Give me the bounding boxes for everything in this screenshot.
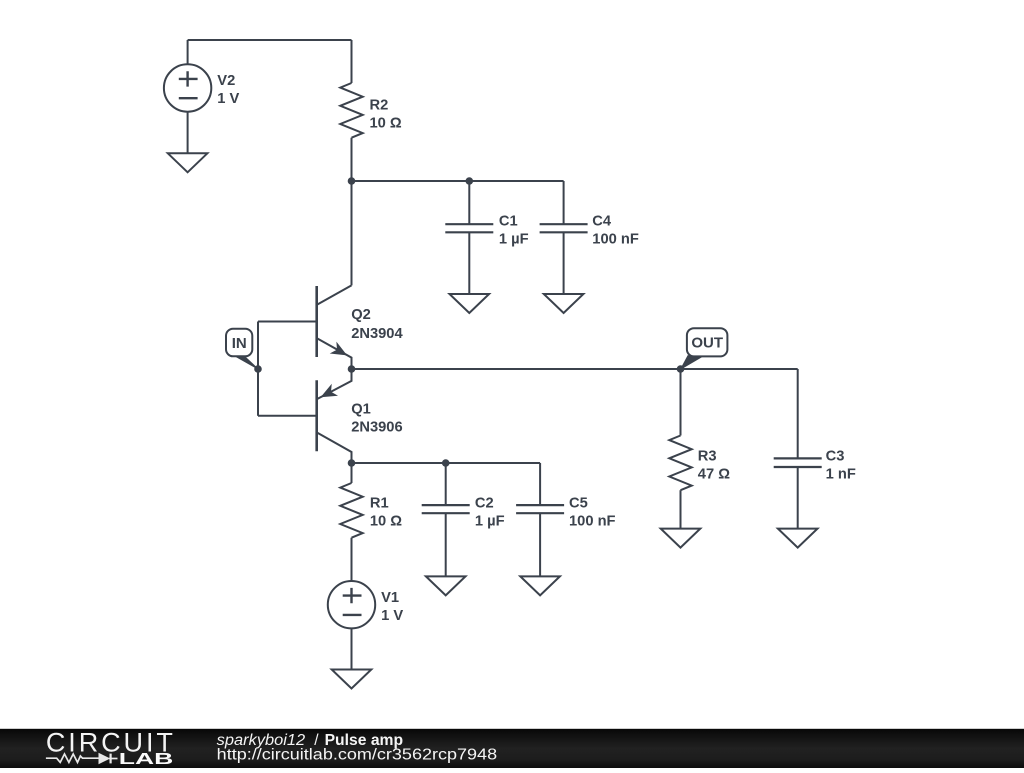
junction node at R2 bottom bbox=[348, 177, 356, 185]
wire V2 top to R2 top bbox=[188, 39, 352, 41]
svg-text:IN: IN bbox=[232, 335, 247, 352]
ground below C5 bbox=[520, 576, 560, 595]
junction node emitters bbox=[348, 365, 356, 373]
svg-text:C5: C5 bbox=[569, 495, 588, 511]
label R2 10ohm bbox=[370, 97, 402, 131]
svg-text:1 nF: 1 nF bbox=[826, 467, 856, 483]
svg-text:100 nF: 100 nF bbox=[569, 513, 616, 529]
ground below R3 bbox=[661, 529, 701, 548]
svg-text:100 nF: 100 nF bbox=[592, 232, 639, 248]
flag OUT bbox=[681, 328, 728, 369]
ground below C1 bbox=[450, 294, 490, 313]
svg-text:R2: R2 bbox=[370, 97, 389, 113]
node IN dot bbox=[254, 365, 262, 373]
junction node at C1 top bbox=[466, 177, 474, 185]
junction node at C2 top bbox=[442, 459, 450, 467]
svg-text:1 V: 1 V bbox=[217, 91, 239, 107]
wire junction to C4 bbox=[352, 180, 564, 182]
svg-text:http://circuitlab.com/cr3562rc: http://circuitlab.com/cr3562rcp7948 bbox=[217, 746, 497, 763]
wire junction down to Q2 collector bbox=[351, 181, 353, 285]
ground below C2 bbox=[426, 576, 466, 595]
label C1 1uF bbox=[499, 214, 529, 248]
capacitor C3 bbox=[774, 369, 822, 529]
footer bar bbox=[0, 729, 1024, 768]
capacitor C2 bbox=[422, 463, 470, 576]
transistor Q2 2N3904 bbox=[258, 285, 352, 369]
svg-text:Q1: Q1 bbox=[351, 401, 371, 417]
ground below V1 bbox=[332, 670, 372, 689]
svg-text:C2: C2 bbox=[475, 495, 494, 511]
label C4 100nF bbox=[592, 214, 639, 248]
svg-text:10 Ω: 10 Ω bbox=[370, 513, 402, 529]
capacitor C5 bbox=[516, 463, 564, 576]
resistor R1 bbox=[340, 463, 362, 581]
voltage source V2 bbox=[164, 40, 211, 153]
resistor R2 bbox=[340, 40, 362, 181]
svg-text:1 µF: 1 µF bbox=[499, 232, 529, 248]
label Q2 2N3904 bbox=[351, 307, 403, 342]
svg-text:C1: C1 bbox=[499, 214, 518, 230]
label R3 47ohm bbox=[698, 449, 730, 483]
ground below C3 bbox=[778, 529, 818, 548]
svg-text:47 Ω: 47 Ω bbox=[698, 467, 730, 483]
ground below C4 bbox=[544, 294, 584, 313]
label C3 1nF bbox=[826, 449, 856, 483]
ground below V2 bbox=[168, 153, 208, 172]
label V2 1 V bbox=[217, 73, 239, 107]
node OUT dot bbox=[677, 365, 685, 373]
svg-text:10 Ω: 10 Ω bbox=[370, 115, 402, 131]
svg-text:2N3906: 2N3906 bbox=[351, 419, 402, 435]
logo resistor and diode bbox=[46, 754, 118, 764]
svg-text:R3: R3 bbox=[698, 449, 717, 465]
svg-text:OUT: OUT bbox=[691, 335, 723, 352]
wire IN vertical bbox=[257, 322, 259, 416]
label R1 10ohm bbox=[370, 495, 402, 529]
svg-text:1 V: 1 V bbox=[381, 608, 403, 624]
svg-text:R1: R1 bbox=[370, 495, 389, 511]
capacitor C4 bbox=[540, 181, 588, 294]
capacitor C1 bbox=[445, 181, 493, 294]
junction node Q1 collector bbox=[348, 459, 356, 467]
wire emitters to C3 corner bbox=[352, 368, 798, 370]
wire bottom rail to C5 bbox=[352, 462, 541, 464]
svg-text:Q2: Q2 bbox=[351, 307, 371, 323]
label V1 1 V bbox=[381, 590, 403, 624]
label Q1 2N3906 bbox=[351, 401, 402, 435]
flag IN bbox=[226, 329, 258, 369]
svg-text:V2: V2 bbox=[217, 73, 235, 89]
label C2 1uF bbox=[475, 495, 505, 529]
transistor Q1 2N3906 bbox=[258, 369, 352, 463]
logo LAB text bbox=[119, 750, 173, 768]
svg-text:C3: C3 bbox=[826, 449, 845, 465]
svg-text:2N3904: 2N3904 bbox=[351, 326, 403, 342]
resistor R3 bbox=[669, 369, 691, 529]
svg-text:C4: C4 bbox=[592, 214, 612, 230]
voltage source V1 bbox=[328, 581, 375, 670]
label C5 100nF bbox=[569, 495, 616, 529]
svg-text:V1: V1 bbox=[381, 590, 399, 606]
svg-text:1 µF: 1 µF bbox=[475, 513, 505, 529]
svg-text:LAB: LAB bbox=[119, 750, 173, 768]
